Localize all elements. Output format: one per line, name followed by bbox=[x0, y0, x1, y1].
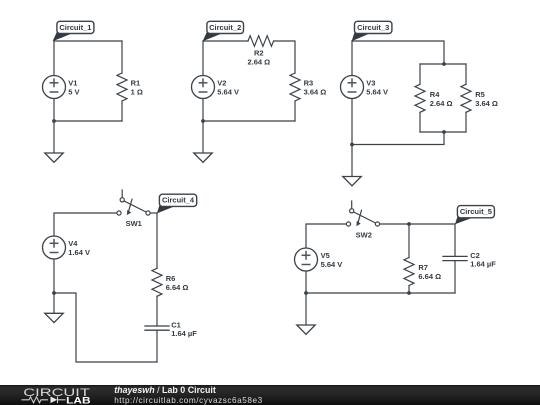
svg-text:6.64 Ω: 6.64 Ω bbox=[166, 283, 189, 292]
label R6 6.64 &#937; bbox=[166, 274, 189, 292]
svg-text:5 V: 5 V bbox=[68, 87, 79, 96]
wire: ground lead circuit1 bbox=[53, 121, 55, 153]
wire: C2 top lead bbox=[454, 224, 456, 256]
CircuitLab logo wordmark LAB bbox=[66, 395, 96, 405]
node top rail junction bbox=[442, 62, 446, 66]
wire: V5 bottom lead bbox=[305, 271, 307, 293]
wire: R4 top lead bbox=[419, 64, 421, 84]
flag Circuit_1 bbox=[53, 21, 94, 41]
svg-text:R3: R3 bbox=[304, 79, 314, 88]
svg-text:V4: V4 bbox=[68, 239, 78, 248]
resistor R4 bbox=[415, 84, 425, 112]
wire: R7 bottom lead bbox=[408, 286, 410, 294]
footer title text bbox=[114, 385, 216, 395]
wire: R5 bottom lead bbox=[465, 112, 467, 132]
flag Circuit_3 bbox=[352, 21, 392, 41]
svg-text:3.64 Ω: 3.64 Ω bbox=[304, 88, 327, 97]
voltage source V1 bbox=[43, 76, 66, 99]
svg-text:1.64 µF: 1.64 µF bbox=[171, 329, 197, 338]
footer bar bbox=[0, 385, 540, 405]
resistor R1 bbox=[117, 73, 127, 101]
svg-text:V2: V2 bbox=[217, 79, 226, 88]
node R7 bottom junction bbox=[407, 291, 411, 295]
wire: R7 top lead bbox=[408, 224, 410, 258]
wire: V3 bottom lead bbox=[351, 99, 353, 145]
voltage source V4 bbox=[43, 236, 66, 259]
label R1 1 &#937; bbox=[131, 79, 143, 97]
wire: R6 bottom to C1 top bbox=[156, 296, 158, 326]
wire: V1 bottom lead bbox=[53, 99, 55, 122]
label V1 5 V bbox=[68, 79, 79, 97]
wire: node to V2 top bbox=[202, 41, 204, 76]
wire: R3 bottom lead bbox=[294, 101, 296, 121]
svg-text:V5: V5 bbox=[321, 251, 330, 260]
label C2 1.64 &#181;F bbox=[470, 251, 496, 269]
svg-text:Circuit_2: Circuit_2 bbox=[209, 23, 241, 32]
flag Circuit_5 bbox=[455, 206, 494, 225]
svg-text:2.64 Ω: 2.64 Ω bbox=[430, 99, 453, 108]
svg-text:2.64 Ω: 2.64 Ω bbox=[247, 57, 270, 66]
svg-text:R5: R5 bbox=[475, 90, 485, 99]
footer url text bbox=[114, 396, 263, 405]
svg-text:V3: V3 bbox=[366, 79, 375, 88]
node junction circuit2 bbox=[201, 119, 205, 123]
wire: node down to R6 bbox=[156, 213, 158, 268]
label R3 3.64 &#937; bbox=[304, 79, 327, 97]
svg-text:5.64 V: 5.64 V bbox=[366, 87, 388, 96]
label R4 2.64 &#937; bbox=[430, 90, 453, 108]
wire: R1 top lead bbox=[121, 41, 123, 73]
wire: node to V1 top bbox=[53, 41, 55, 76]
svg-text:R4: R4 bbox=[430, 90, 440, 99]
svg-text:C2: C2 bbox=[470, 251, 480, 260]
flag Circuit_2 bbox=[203, 21, 244, 41]
svg-text:5.64 V: 5.64 V bbox=[217, 87, 239, 96]
resistor R5 bbox=[461, 84, 471, 112]
svg-text:R1: R1 bbox=[131, 79, 141, 88]
wire: bottom return circuit4 bbox=[54, 293, 157, 362]
wire: node to parallel feed bbox=[352, 41, 444, 64]
wire: V2 bottom lead bbox=[202, 99, 204, 122]
switch SW2 bbox=[346, 201, 379, 226]
svg-text:LAB: LAB bbox=[66, 395, 91, 405]
capacitor C1 bbox=[145, 326, 169, 330]
wire: circuit1 bottom rail bbox=[54, 120, 122, 122]
resistor R6 bbox=[152, 268, 162, 296]
label C1 1.64 &#181;F bbox=[171, 320, 197, 338]
wire: node to R2 left lead bbox=[203, 40, 248, 42]
voltage source V5 bbox=[295, 248, 318, 271]
svg-text:6.64 Ω: 6.64 Ω bbox=[418, 272, 441, 281]
label R5 3.64 &#937; bbox=[475, 90, 498, 108]
wire: ground lead circuit5 bbox=[305, 293, 307, 325]
ground circuit 2 bbox=[194, 153, 212, 162]
svg-text:5.64 V: 5.64 V bbox=[321, 260, 343, 269]
wire: C2 bottom lead bbox=[454, 261, 456, 293]
node junction circuit1 bbox=[52, 119, 56, 123]
wire: R1 bottom lead bbox=[121, 101, 123, 121]
voltage source V3 bbox=[341, 76, 364, 99]
label V5 5.64 V bbox=[321, 251, 343, 269]
svg-text:Circuit_4: Circuit_4 bbox=[162, 196, 195, 205]
svg-text:R6: R6 bbox=[166, 274, 176, 283]
svg-text:1.64 µF: 1.64 µF bbox=[470, 260, 496, 269]
wire: C1 bottom lead bbox=[156, 330, 158, 362]
wire: circuit5 bottom rail bbox=[306, 292, 455, 294]
svg-text:V1: V1 bbox=[68, 79, 77, 88]
svg-text:R2: R2 bbox=[254, 49, 264, 58]
CircuitLab logo wordmark CIRCUIT bbox=[23, 385, 103, 399]
wire: parallel return to V3 bbox=[352, 132, 444, 145]
resistor R3 bbox=[290, 73, 300, 101]
resistor R2 bbox=[248, 36, 274, 47]
ground circuit 5 bbox=[297, 325, 315, 334]
voltage source V2 bbox=[192, 76, 215, 99]
svg-text:C1: C1 bbox=[171, 320, 181, 329]
wire: ground lead circuit4 bbox=[53, 293, 55, 313]
label R7 6.64 &#937; bbox=[418, 263, 441, 281]
wire: ground lead circuit2 bbox=[202, 121, 204, 153]
svg-text:1.64 V: 1.64 V bbox=[68, 248, 90, 257]
label V4 1.64 V bbox=[68, 239, 90, 257]
wire: parallel bottom rail bbox=[420, 131, 466, 133]
ground circuit 4 bbox=[45, 313, 63, 322]
wire: V4 bottom lead bbox=[53, 259, 55, 293]
flag Circuit_4 bbox=[157, 194, 197, 213]
svg-text:1 Ω: 1 Ω bbox=[131, 88, 143, 97]
wire: R5 top lead bbox=[465, 64, 467, 84]
svg-text:SW2: SW2 bbox=[356, 230, 372, 239]
node V5 bottom junction bbox=[304, 291, 308, 295]
node R7 top junction bbox=[407, 222, 411, 226]
svg-text:Circuit_3: Circuit_3 bbox=[357, 23, 389, 32]
wire: circuit1 top rail bbox=[54, 40, 122, 42]
svg-text:3.64 Ω: 3.64 Ω bbox=[475, 99, 498, 108]
resistor R7 bbox=[404, 258, 414, 286]
wire: circuit2 bottom rail bbox=[203, 120, 295, 122]
ground circuit 1 bbox=[45, 153, 63, 162]
node junction circuit4 bbox=[52, 291, 56, 295]
node bottom rail junction bbox=[442, 130, 446, 134]
label V3 5.64 V bbox=[366, 79, 388, 97]
wire: R4 bottom lead bbox=[419, 112, 421, 132]
wire: SW1 right terminal to node bbox=[150, 212, 157, 214]
label V2 5.64 V bbox=[217, 79, 239, 97]
svg-text:Circuit_1: Circuit_1 bbox=[59, 23, 91, 32]
ground circuit 3 bbox=[343, 177, 361, 186]
wire: parallel top rail bbox=[420, 63, 466, 65]
node junction circuit3 bbox=[350, 143, 354, 147]
wire: node to V3 top bbox=[351, 41, 353, 76]
svg-text:SW1: SW1 bbox=[126, 219, 142, 228]
CircuitLab logo wire art (resistor + diode) bbox=[21, 395, 68, 405]
svg-text:Circuit_5: Circuit_5 bbox=[460, 207, 492, 216]
wire: ground lead circuit3 bbox=[351, 145, 353, 177]
svg-text:R7: R7 bbox=[418, 263, 428, 272]
wire: V5 top to SW2 left terminal bbox=[306, 224, 346, 248]
wire: R2 right lead to R3 top bbox=[274, 41, 295, 73]
switch SW1 bbox=[117, 190, 150, 215]
label R2 2.64 Ω bbox=[247, 49, 270, 67]
capacitor C2 bbox=[443, 256, 467, 260]
wire: V4 top to SW1 left terminal bbox=[54, 213, 117, 236]
wire: SW2 right terminal to C2 corner bbox=[380, 223, 455, 225]
